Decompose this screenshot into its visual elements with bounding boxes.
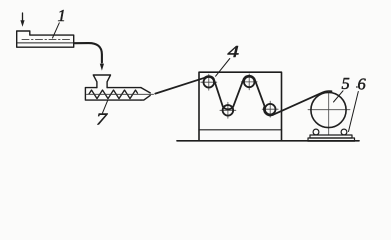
carriage upper plate 6 bbox=[310, 135, 352, 138]
web from extruder die to calender bbox=[155, 78, 204, 94]
extruder screw bbox=[89, 90, 138, 99]
svg-text:6: 6 bbox=[358, 75, 367, 94]
roller crosshair C1 bbox=[201, 74, 217, 90]
carriage lower plate bbox=[308, 138, 355, 141]
leader of label 5 bbox=[334, 91, 344, 102]
feeder axis line bbox=[22, 39, 71, 41]
pipe from feeder to hopper bbox=[75, 43, 102, 62]
roller C3 bbox=[223, 105, 234, 116]
wind-up drum 5 bbox=[311, 92, 346, 127]
extruder die nozzle bbox=[141, 88, 150, 101]
feeder body 1 (vibrating feeder) bbox=[17, 31, 74, 47]
svg-text:5: 5 bbox=[342, 74, 350, 93]
roller C4 bbox=[265, 104, 276, 115]
svg-text:1: 1 bbox=[58, 6, 66, 25]
support wheel right bbox=[341, 129, 347, 135]
web from calender to wind-up drum bbox=[273, 91, 332, 115]
calender frame 4 bbox=[199, 72, 282, 140]
roller C1 bbox=[204, 77, 215, 88]
hopper of extruder bbox=[93, 75, 110, 88]
leader of label 7 bbox=[103, 101, 108, 113]
feed arrow into feeder 1 bbox=[20, 13, 24, 27]
web path over and under calender rollers bbox=[205, 76, 273, 116]
roller crosshair C4 bbox=[262, 101, 278, 117]
leader of label 4 bbox=[216, 59, 230, 77]
calender base divider bbox=[199, 129, 282, 131]
extruder axis line bbox=[87, 93, 154, 95]
svg-text:4: 4 bbox=[228, 42, 240, 61]
leader of label 6 bbox=[349, 92, 359, 132]
roller crosshair C2 bbox=[241, 74, 257, 90]
roller crosshair C3 bbox=[220, 102, 236, 118]
pipe arrow into hopper bbox=[100, 64, 104, 71]
drum crosshair bbox=[308, 91, 350, 136]
svg-text:7: 7 bbox=[96, 110, 108, 129]
support wheel left bbox=[313, 129, 319, 135]
dot before label 6 bbox=[356, 86, 358, 88]
ground line bbox=[177, 140, 359, 142]
leader of label 1 bbox=[53, 23, 60, 38]
feeder inner bottom line bbox=[17, 42, 74, 44]
roller C2 bbox=[244, 77, 255, 88]
extruder barrel 7 bbox=[85, 88, 141, 101]
